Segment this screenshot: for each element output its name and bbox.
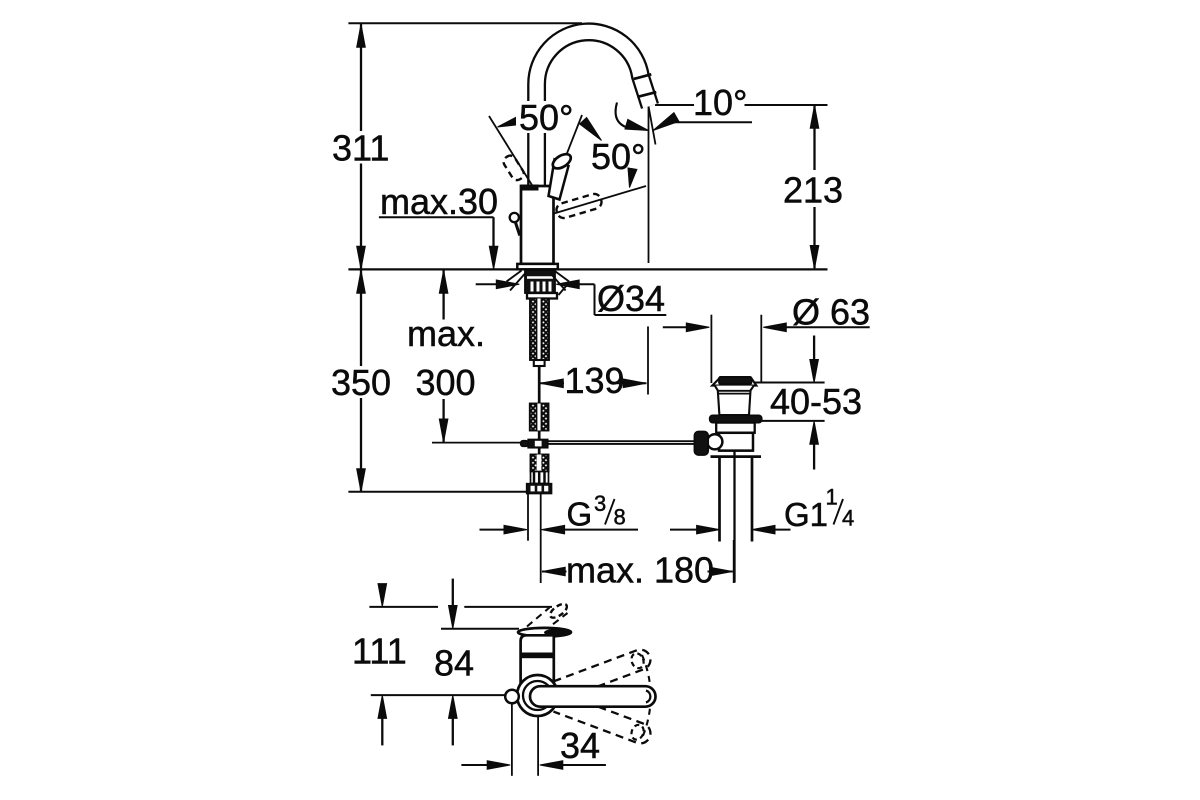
svg-text:4: 4 xyxy=(842,506,854,531)
sv dashed spout line b xyxy=(544,613,568,632)
dia63 dim line right xyxy=(785,326,870,328)
dim 311 line lower xyxy=(360,164,362,269)
sv screw circle xyxy=(505,690,519,704)
svg-text:max.30: max.30 xyxy=(380,181,498,222)
dia34 leader vertical xyxy=(594,284,596,315)
max.30 underline xyxy=(379,216,494,218)
G38 arrow left xyxy=(504,525,527,534)
dia63 arrow left xyxy=(686,323,709,332)
svg-text:111: 111 xyxy=(352,631,407,672)
dia63 ext line right xyxy=(760,315,762,383)
G38 dim line right xyxy=(560,529,638,531)
solid lever xyxy=(549,160,569,200)
sv lever xyxy=(530,686,656,707)
dim4053 arrow up xyxy=(810,421,819,444)
svg-text:50°: 50° xyxy=(519,97,573,138)
dim84 shaft top xyxy=(452,579,454,608)
aerator band 1 xyxy=(634,74,652,79)
hose block lower xyxy=(531,455,549,472)
dim 213 line lower xyxy=(813,207,815,268)
dia63 ext line left xyxy=(710,315,712,383)
G114 dim line right xyxy=(774,529,791,531)
50deg-1 right ref line xyxy=(553,115,582,189)
sv top ref line seg1 xyxy=(369,606,438,608)
dim139 arrow right xyxy=(623,379,646,388)
svg-text:Ø34: Ø34 xyxy=(597,278,665,319)
sv swing arc xyxy=(642,655,651,738)
spout tip vertical extension line xyxy=(648,106,650,263)
clamp slash right a xyxy=(554,271,569,282)
svg-text:8: 8 xyxy=(614,505,626,530)
dim139 line right xyxy=(612,382,647,384)
dim 311 line upper xyxy=(360,24,362,131)
dim111 shaft bottom xyxy=(381,716,383,745)
svg-text:1: 1 xyxy=(826,485,838,510)
10deg ref line left of label xyxy=(655,104,694,106)
G38 dim line left xyxy=(480,529,506,531)
dim84 arrow bottom xyxy=(449,695,458,718)
dim4053 shaft bottom xyxy=(813,444,815,470)
50deg-1 arrow left xyxy=(498,115,523,127)
max.30 arrow shaft xyxy=(492,246,494,252)
spout gooseneck outline xyxy=(537,32,650,192)
dia34 underline xyxy=(595,314,667,316)
10deg arrow left xyxy=(625,119,649,130)
dim 311 arrow up xyxy=(357,24,366,47)
svg-text:311: 311 xyxy=(332,128,389,169)
clamp slash left a xyxy=(507,271,522,282)
sv top plate ellipse xyxy=(518,628,571,637)
dim 213 arrow up xyxy=(810,105,819,128)
G114 arrow right xyxy=(752,525,775,534)
sv bottom ref line xyxy=(371,694,506,696)
dim111 shaft top xyxy=(381,584,383,586)
dim 213 top reference line xyxy=(745,104,828,106)
drain pivot ball xyxy=(707,434,722,449)
sv dashed spout line a xyxy=(527,608,550,627)
10deg lower reference line xyxy=(674,121,752,123)
dim4053 bottom ref line xyxy=(759,420,825,422)
dim34 line right xyxy=(562,764,606,766)
pullrod clevis tip xyxy=(521,441,529,447)
drain gasket xyxy=(710,415,762,422)
dim 213 line upper xyxy=(813,106,815,171)
G114 dim line left xyxy=(670,529,700,531)
dim34 ext line right xyxy=(537,717,539,776)
svg-text:84: 84 xyxy=(434,643,474,684)
dia34 arrow right xyxy=(556,280,579,289)
sv swivel outer circle xyxy=(517,675,558,716)
dim 350 bottom reference line xyxy=(348,491,526,493)
base flange xyxy=(517,264,558,269)
svg-text:34: 34 xyxy=(560,725,600,766)
drain tailpipe xyxy=(718,457,721,542)
sv top ref line seg2 xyxy=(464,606,552,608)
dashed lever tilted left xyxy=(502,154,526,183)
G38 arrow right xyxy=(542,525,565,534)
dim4053 shaft top xyxy=(813,336,815,361)
drain pivot knob xyxy=(694,432,708,456)
horizontal rod left thin xyxy=(432,442,521,444)
dim max300 arrow up xyxy=(439,270,448,293)
drain plug cap xyxy=(719,377,752,384)
dim34 line left xyxy=(461,764,488,766)
side pivot circle xyxy=(510,213,519,222)
clamp slash left b xyxy=(510,274,525,291)
dim84 shaft bottom xyxy=(452,716,454,745)
dim139 right extension line xyxy=(647,326,649,394)
svg-text:max.: max. xyxy=(407,313,485,354)
dia63 arrow right xyxy=(763,323,786,332)
sv body band xyxy=(520,653,556,659)
svg-text:10°: 10° xyxy=(693,82,747,123)
dim34 arrow right xyxy=(540,761,563,770)
drain compression joint xyxy=(719,449,753,451)
spout tip 10deg slanted line xyxy=(649,106,656,145)
shank tailpiece xyxy=(534,360,545,366)
faucet body xyxy=(521,186,554,264)
dim max300 line upper xyxy=(442,270,444,320)
drain flange brim xyxy=(712,379,756,386)
drain upper body xyxy=(716,423,755,433)
top reference line (spout top level) xyxy=(348,22,582,24)
max180 dim line left xyxy=(542,571,567,573)
dim4053 arrow down xyxy=(810,360,819,383)
mounting nut xyxy=(525,270,555,293)
svg-text:G: G xyxy=(567,496,593,533)
svg-text:max. 180: max. 180 xyxy=(566,549,714,590)
hose block upper xyxy=(530,404,549,431)
solid lever knob ellipse xyxy=(550,151,573,171)
clamp slash right b xyxy=(551,274,566,291)
center extension line (max180 left) xyxy=(540,494,542,583)
svg-text:50°: 50° xyxy=(591,136,645,177)
50deg-2 arrow down xyxy=(628,168,637,188)
sv 84 ref line xyxy=(441,628,519,630)
50deg-1 arrow right xyxy=(580,118,602,141)
drain tee body xyxy=(719,433,753,451)
50deg-1 left ref line xyxy=(489,116,534,188)
10deg arrow right xyxy=(653,113,679,131)
svg-text:Ø 63: Ø 63 xyxy=(792,292,870,333)
hose upper xyxy=(538,366,541,404)
drain center line xyxy=(733,451,735,583)
max180 arrow right xyxy=(710,567,733,576)
horizontal rod to drain xyxy=(548,440,695,442)
hose bottom nut xyxy=(527,484,552,494)
label 50deg-1 bg xyxy=(516,101,574,133)
dim 350 line lower xyxy=(360,398,362,492)
body top black notch xyxy=(521,185,539,191)
max180 arrow left xyxy=(542,567,565,576)
lower flange xyxy=(527,293,557,299)
sv lever end inner arc xyxy=(646,691,650,703)
sv dashed spout end ellipse xyxy=(548,601,569,620)
dim max300 line lower xyxy=(442,399,444,442)
dim84 arrow top xyxy=(449,606,458,629)
dia34 arrow left xyxy=(496,280,519,289)
dia34 dim line left xyxy=(476,283,498,285)
hose nipple section xyxy=(531,472,549,484)
side pivot tick xyxy=(516,223,520,236)
dim139 line left xyxy=(540,382,564,384)
svg-text:213: 213 xyxy=(783,170,843,211)
drain flange neck xyxy=(715,386,754,415)
svg-text:350: 350 xyxy=(331,362,391,403)
aerator band 2 xyxy=(637,92,656,97)
dim 350 line upper xyxy=(360,270,362,366)
svg-text:G1: G1 xyxy=(784,496,828,533)
max.30 leader drop xyxy=(492,217,494,248)
dim34 ext line left xyxy=(511,704,513,776)
dim max300 arrow down xyxy=(439,419,448,442)
rod link lower xyxy=(538,448,541,455)
dia34 tick right xyxy=(559,285,568,295)
sv dashed lever down xyxy=(553,693,653,747)
svg-text:139: 139 xyxy=(565,360,625,401)
dim111 arrow bottom xyxy=(378,695,387,718)
dim4053 top ref line xyxy=(754,382,825,384)
dia63 dim line left xyxy=(663,326,687,328)
rod link upper xyxy=(538,431,541,440)
dashed lever tilted down-right xyxy=(555,192,603,219)
countertop deck line xyxy=(348,268,827,270)
dia34 leader horizontal xyxy=(578,283,595,285)
svg-text:40-53: 40-53 xyxy=(770,381,862,422)
50deg-2 lower ref line xyxy=(554,186,646,214)
dim 311 arrow down xyxy=(357,246,366,269)
sv dashed lever up xyxy=(553,647,653,701)
G38 extension line left xyxy=(527,494,529,541)
threaded shank xyxy=(530,299,549,361)
sv top plate dark part xyxy=(544,629,571,637)
dim 350 arrow up xyxy=(357,270,366,293)
sv swivel inner circle xyxy=(523,681,552,710)
max180 bar right xyxy=(733,540,735,583)
svg-text:300: 300 xyxy=(416,362,476,403)
pullrod junction block xyxy=(528,440,548,448)
G114 arrow left xyxy=(697,525,720,534)
svg-text:3: 3 xyxy=(594,491,606,516)
max.30 arrow down xyxy=(489,246,498,269)
dim 350 arrow down xyxy=(357,469,366,492)
dim139 arrow left xyxy=(540,379,563,388)
dim 213 arrow down xyxy=(810,246,819,269)
dim111 arrow top xyxy=(378,584,387,607)
10deg curved leader xyxy=(616,103,627,128)
dim34 arrow left xyxy=(487,761,510,770)
max180 dim line right xyxy=(708,571,733,573)
sv body xyxy=(521,635,554,686)
